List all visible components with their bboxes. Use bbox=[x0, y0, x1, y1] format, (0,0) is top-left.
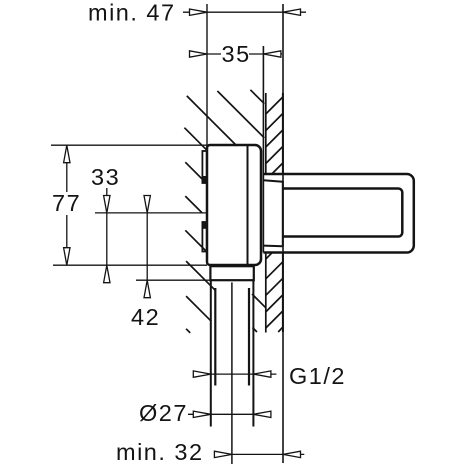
svg-text:min. 47: min. 47 bbox=[88, 0, 176, 26]
pipe centerline bbox=[231, 282, 233, 464]
spindle sleeve right edge bbox=[282, 181, 284, 246]
arrow 77 bottom bbox=[64, 248, 70, 266]
extension line from valve mounting face (top) bbox=[206, 4, 208, 145]
arrow 77 top bbox=[64, 145, 70, 163]
arrow G12 left bbox=[193, 371, 211, 377]
dimension 35 line bbox=[189, 53, 221, 55]
tab upper foot (filled) bbox=[202, 177, 206, 184]
dimension G1/2 line bbox=[198, 373, 276, 375]
plaster band lower (dense hatch) bbox=[266, 253, 283, 333]
thread root right bbox=[248, 288, 250, 386]
dimension 33 bbox=[106, 188, 108, 196]
arrow d27 left bbox=[193, 411, 211, 417]
wall band right line lower (thick) bbox=[282, 253, 284, 333]
extension line body top left bbox=[51, 144, 207, 146]
arrow 33 top bbox=[104, 196, 110, 213]
arrow min32 left bbox=[214, 451, 232, 457]
connection nut bbox=[210, 266, 253, 280]
pipe thread outer right bbox=[252, 280, 254, 426]
svg-text:35: 35 bbox=[222, 41, 251, 67]
extension / plaster inner line bbox=[262, 46, 264, 253]
svg-text:33: 33 bbox=[91, 164, 120, 190]
svg-text:77: 77 bbox=[52, 190, 81, 216]
protective cap inner bbox=[283, 189, 403, 237]
spindle sleeve bottom bbox=[263, 245, 282, 248]
protective cap outer bbox=[263, 174, 413, 253]
svg-text:Ø27: Ø27 bbox=[139, 400, 188, 426]
plaster band upper (dense hatch) bbox=[266, 93, 283, 174]
dimension 42 bbox=[146, 213, 148, 280]
arrow min47 right bbox=[283, 9, 301, 15]
arrow 42 bottom bbox=[144, 280, 150, 298]
mounting tab upper bbox=[202, 151, 206, 183]
arrow 35 left bbox=[190, 51, 208, 57]
thread root left bbox=[214, 288, 216, 386]
dimension min. 32 line bbox=[215, 453, 304, 455]
wall hatching sparse (rough wall) bbox=[184, 90, 265, 333]
valve body bbox=[207, 145, 261, 265]
extension line nut bottom bbox=[136, 279, 210, 281]
extension line spindle axis bbox=[95, 212, 207, 214]
valve body face line bbox=[247, 146, 249, 265]
dimension Ø27 line bbox=[188, 413, 270, 415]
pipe thread outer left bbox=[210, 280, 212, 426]
arrow 42 top bbox=[144, 196, 150, 213]
svg-text:42: 42 bbox=[131, 304, 160, 330]
extension line body bottom bbox=[53, 264, 207, 266]
spindle sleeve top bbox=[263, 180, 282, 182]
arrow min32 right bbox=[283, 451, 301, 457]
svg-text:G1/2: G1/2 bbox=[289, 363, 346, 389]
dimension 77 line bbox=[66, 145, 68, 192]
arrow 33 bottom bbox=[104, 265, 110, 283]
tab lower foot (filled) bbox=[202, 222, 206, 228]
arrow d27 right bbox=[253, 411, 271, 417]
dimension min. 47 line bbox=[183, 11, 306, 13]
mounting tab lower bbox=[202, 222, 206, 252]
svg-text:min. 32: min. 32 bbox=[116, 439, 204, 465]
wall band right line upper (thick) bbox=[282, 93, 284, 174]
arrow min47 left bbox=[190, 9, 208, 15]
arrow G12 right bbox=[253, 371, 271, 377]
arrow 35 right bbox=[263, 51, 281, 57]
finished wall surface line bbox=[282, 4, 284, 463]
